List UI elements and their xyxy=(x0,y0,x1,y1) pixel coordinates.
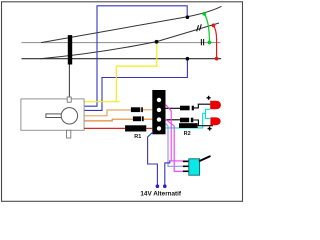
svg-text:R1: R1 xyxy=(134,134,141,140)
svg-text:R2: R2 xyxy=(184,131,191,137)
svg-text:14V Alternatif: 14V Alternatif xyxy=(140,191,182,198)
